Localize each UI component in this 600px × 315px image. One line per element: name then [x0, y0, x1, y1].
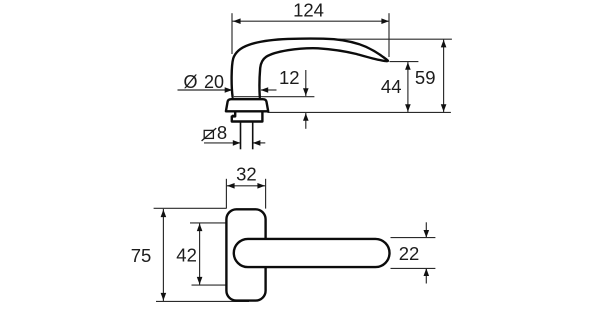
svg-text:75: 75 [131, 245, 152, 266]
svg-text:59: 59 [415, 67, 436, 88]
svg-text:22: 22 [399, 243, 420, 264]
svg-text:8: 8 [217, 122, 227, 143]
svg-text:44: 44 [381, 76, 402, 97]
svg-text:42: 42 [176, 244, 197, 265]
svg-text:124: 124 [293, 0, 324, 21]
svg-text:32: 32 [236, 163, 257, 184]
svg-text:12: 12 [279, 67, 300, 88]
svg-text:Ø 20: Ø 20 [184, 72, 225, 92]
